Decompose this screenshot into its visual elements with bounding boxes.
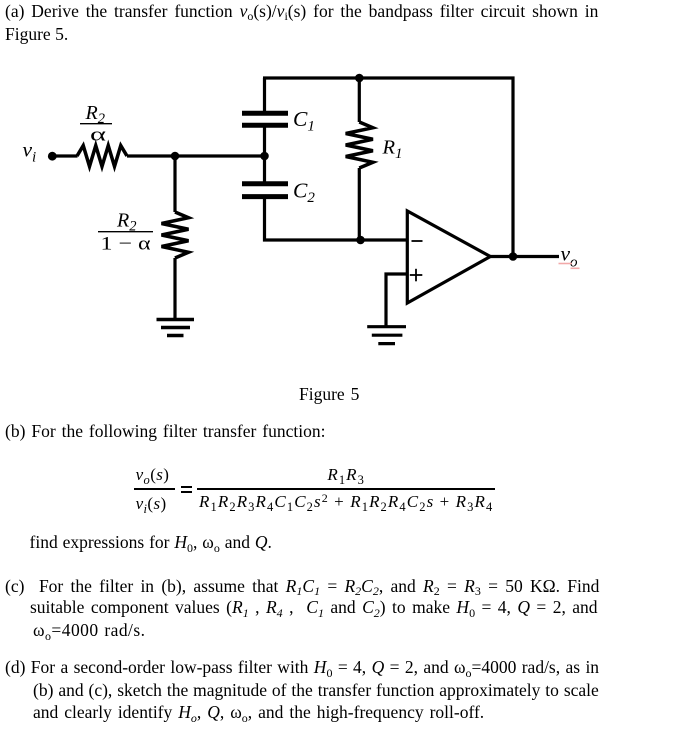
op-amp U1 triangle	[407, 211, 490, 303]
wire R1 to inverting net	[358, 168, 361, 240]
wire R2/alpha to node A	[127, 154, 265, 157]
paragraph (d) line 3	[33, 703, 484, 721]
node B junction dot (caps junction)	[260, 152, 269, 161]
node A junction dot	[171, 152, 180, 161]
wire op-amp output	[490, 255, 559, 258]
resistor R1	[346, 122, 373, 168]
node R1 top junction dot	[355, 74, 364, 83]
resistor R2/alpha	[77, 146, 127, 167]
node R1 bottom junction dot	[356, 236, 365, 245]
label vo with red underline	[559, 242, 580, 271]
capacitor C1	[242, 113, 288, 125]
wire input to R2/alpha	[55, 154, 78, 157]
paragraph (c) line 2	[30, 598, 598, 616]
svg-text:1 − α: 1 − α	[101, 234, 151, 255]
paragraph (b)	[5, 422, 325, 440]
paragraph (a) line 1	[5, 2, 598, 20]
wire non-inverting input to ground	[386, 274, 407, 327]
capacitor C2	[242, 184, 288, 197]
find expressions line	[30, 533, 272, 551]
svg-text:vo: vo	[561, 242, 579, 271]
wire C1 to top rail	[263, 78, 266, 113]
label R2 over alpha	[80, 102, 112, 146]
wire top rail and feedback	[263, 78, 513, 257]
wire node A down to R2/(1-alpha)	[173, 156, 176, 212]
svg-text:vi: vi	[23, 138, 37, 166]
node output junction dot	[509, 252, 518, 261]
ground (op-amp)	[367, 327, 406, 344]
paragraph (d) line 2	[33, 681, 599, 699]
wire C2 down and right to inverting input net	[265, 197, 408, 240]
svg-text:C2: C2	[293, 178, 315, 206]
wire node B down to C2	[263, 156, 266, 184]
caption Figure 5	[299, 385, 359, 403]
wire top rail to R1	[358, 78, 361, 122]
node vi input terminal dot	[48, 152, 57, 161]
paragraph (a) line 2	[5, 25, 68, 43]
wire node B up to C1	[263, 124, 266, 156]
label R2 over 1-alpha	[98, 210, 153, 255]
svg-text:α: α	[90, 125, 106, 146]
paragraph (d) line 1	[5, 658, 599, 676]
circuit schematic SVG	[0, 0, 686, 380]
equation	[134, 465, 175, 512]
svg-text:C1: C1	[293, 107, 315, 135]
op-amp plus sign	[410, 269, 423, 282]
svg-text:R1: R1	[382, 137, 403, 163]
paragraph (c) line 1	[5, 577, 599, 595]
wire R2/(1-alpha) to ground	[173, 258, 176, 319]
ground (left)	[157, 320, 195, 336]
op-amp minus sign	[412, 240, 423, 242]
resistor R2/(1-alpha)	[162, 212, 189, 258]
svg-text:R2: R2	[116, 210, 136, 235]
paragraph (c) line 3	[33, 621, 145, 639]
